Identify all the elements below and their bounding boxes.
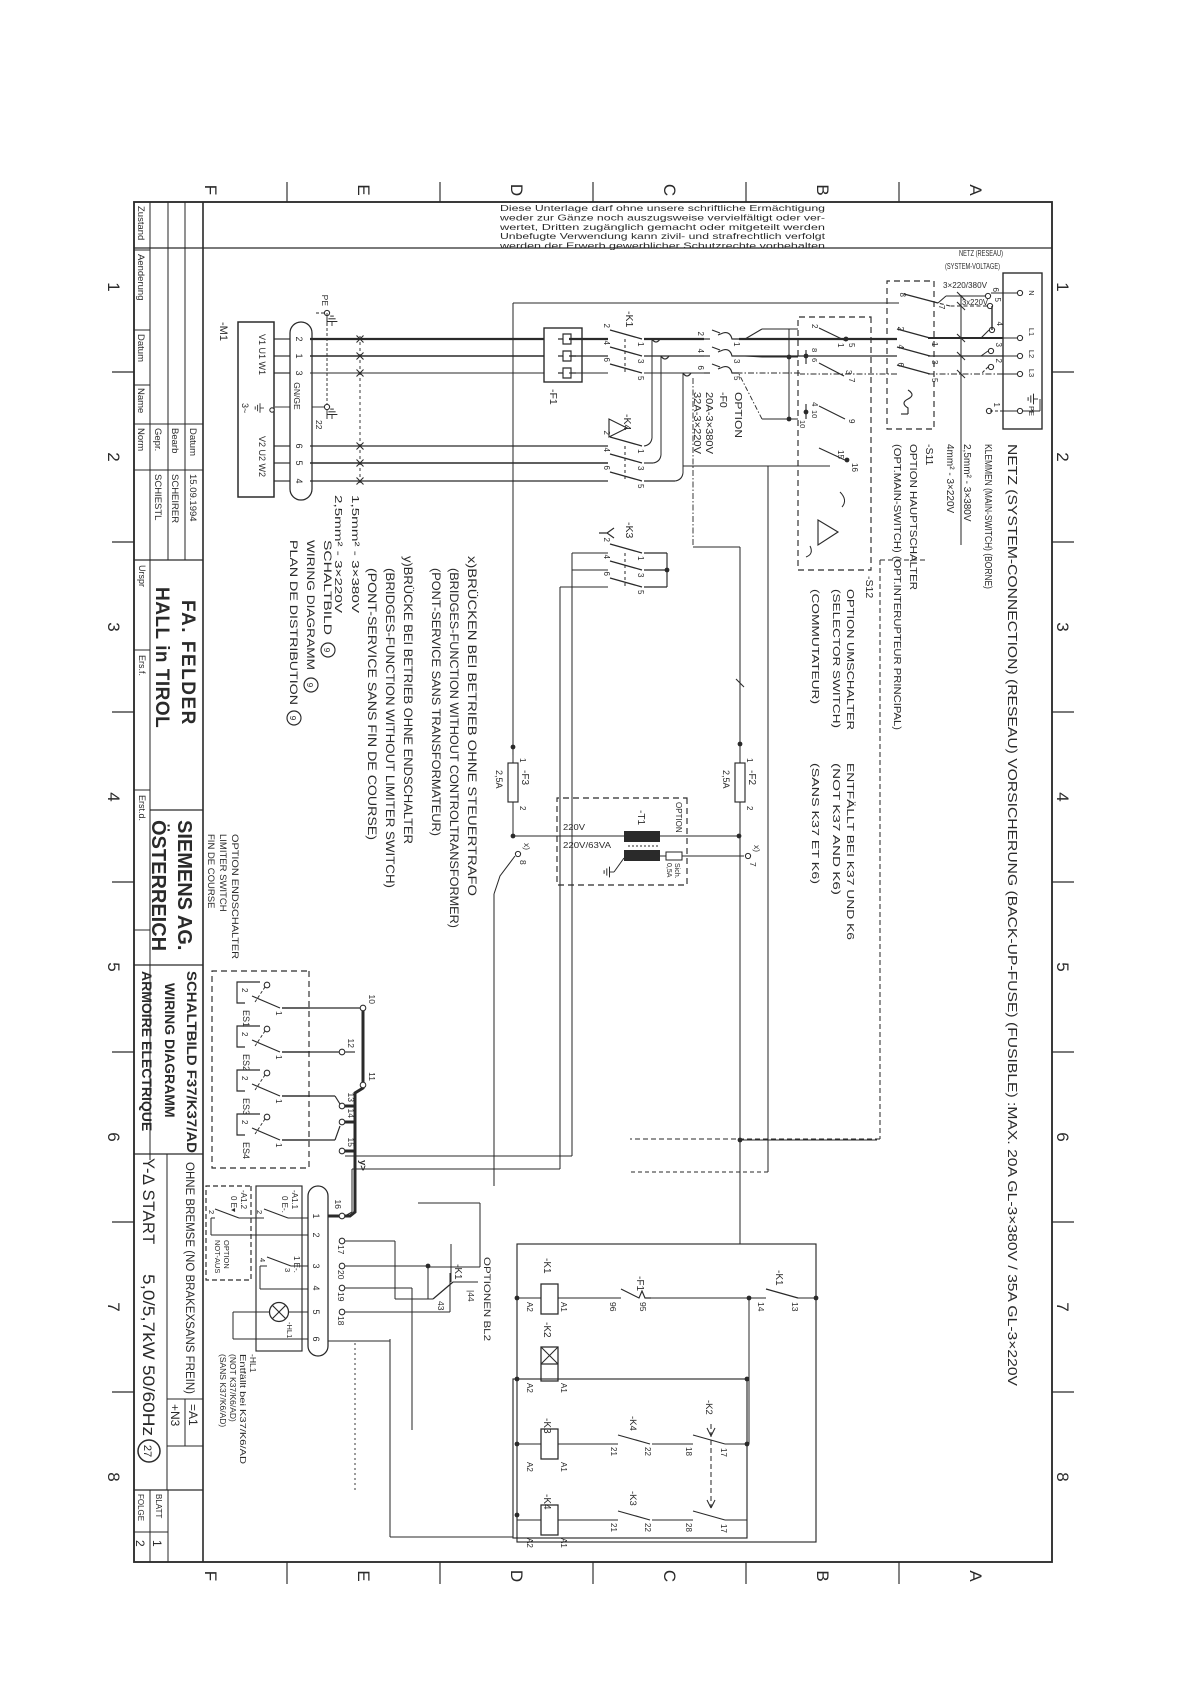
svg-text:werden der Erwerb gewerbliche: werden der Erwerb gewerblicher Schutzrec… <box>498 242 825 251</box>
svg-text:2: 2 <box>696 332 705 337</box>
svg-text:Aenderung: Aenderung <box>135 254 146 300</box>
svg-text:A1: A1 <box>559 1538 568 1548</box>
H11 signal lamp <box>288 1311 308 1313</box>
svg-text:HALL in TIROL: HALL in TIROL <box>151 587 172 728</box>
svg-text:17: 17 <box>719 1448 728 1457</box>
svg-text:0 E▾: 0 E▾ <box>229 1196 238 1212</box>
svg-text:(BRIDGES-FUNCTION WITHOUT LI: (BRIDGES-FUNCTION WITHOUT LIMITER SWITCH… <box>383 568 397 888</box>
=A1 +N3 cell <box>167 1398 203 1400</box>
K2 rung <box>558 1378 749 1380</box>
svg-text:2: 2 <box>602 324 611 329</box>
svg-text:1: 1 <box>745 758 754 763</box>
svg-text:9: 9 <box>847 419 856 424</box>
svg-text:6: 6 <box>991 288 1000 293</box>
star point to y-bridge wires <box>572 552 608 554</box>
svg-text:6: 6 <box>294 443 304 448</box>
svg-text:21: 21 <box>609 1447 618 1456</box>
svg-text:KLEMMEN (MAIN-SWITCH) (BORNE: KLEMMEN (MAIN-SWITCH) (BORNE) <box>982 444 993 589</box>
svg-text:3: 3 <box>994 343 1003 348</box>
svg-text:4: 4 <box>294 478 304 483</box>
svg-text:-F2: -F2 <box>746 770 757 785</box>
svg-text:x): x) <box>752 845 762 852</box>
svg-text:18: 18 <box>684 1447 693 1456</box>
svg-text:2: 2 <box>240 1032 249 1037</box>
svg-text:OPTION: OPTION <box>732 392 744 438</box>
svg-text:A2: A2 <box>525 1383 534 1393</box>
svg-text:5: 5 <box>993 298 1002 303</box>
svg-text:6: 6 <box>1053 1132 1072 1141</box>
svg-text:2: 2 <box>602 431 611 436</box>
svg-text:WIRING DIAGRAMM: WIRING DIAGRAMM <box>304 540 316 670</box>
svg-text:2: 2 <box>255 1210 264 1214</box>
svg-text:1: 1 <box>1053 282 1072 291</box>
svg-text:4: 4 <box>258 1258 267 1262</box>
svg-text:4: 4 <box>696 349 705 354</box>
svg-text:B: B <box>813 184 832 195</box>
svg-text:4: 4 <box>995 322 1004 327</box>
svg-text:-K3: -K3 <box>623 522 635 539</box>
svg-text:1: 1 <box>274 1143 283 1148</box>
svg-text:Name: Name <box>135 388 146 413</box>
svg-text:1: 1 <box>836 343 845 348</box>
svg-text:-HL1: -HL1 <box>285 1322 294 1338</box>
svg-text:3: 3 <box>1053 622 1072 631</box>
svg-text:10: 10 <box>810 410 819 418</box>
svg-text:wertet, Dritten zugänglich gem: wertet, Dritten zugänglich gemacht oder … <box>498 223 825 232</box>
svg-text:ES3: ES3 <box>241 1098 251 1115</box>
bridge terminals x)7 x)8 <box>745 853 750 858</box>
wire N to node 6 <box>991 292 1017 294</box>
svg-text:Gepr.: Gepr. <box>152 428 163 451</box>
limit switch ES3 <box>264 1070 270 1076</box>
svg-text:5: 5 <box>294 460 304 465</box>
svg-text:17: 17 <box>719 1524 728 1533</box>
ES dashed box <box>212 971 309 1168</box>
svg-text:ÖSTERREICH: ÖSTERREICH <box>147 820 170 951</box>
filing margin divider line <box>134 247 1052 249</box>
svg-text:2: 2 <box>240 988 249 993</box>
svg-text:A: A <box>966 184 985 196</box>
K4 rung <box>725 1519 747 1521</box>
svg-text:-K1: -K1 <box>623 311 635 328</box>
svg-text:-K4: -K4 <box>627 1416 638 1431</box>
svg-text:5: 5 <box>847 343 856 348</box>
svg-text:10: 10 <box>367 995 377 1005</box>
svg-text:220V: 220V <box>563 822 585 832</box>
S11 actuator squiggle <box>904 390 912 414</box>
svg-text:A: A <box>966 1570 985 1582</box>
svg-text:7: 7 <box>937 305 946 310</box>
svg-text:A2: A2 <box>525 1462 534 1472</box>
door contact 3-4 <box>291 1265 308 1267</box>
svg-text:Datum: Datum <box>187 428 198 456</box>
limit switch ES4 <box>264 1114 270 1120</box>
svg-text:Unbefugte Verwendung kann zivi: Unbefugte Verwendung kann zivil- und str… <box>500 232 826 241</box>
svg-text:9: 9 <box>305 683 314 688</box>
ground symbol at NETZ PE <box>1028 394 1038 405</box>
svg-text:2: 2 <box>518 806 527 811</box>
F2 rail feed corner from pole5 bridge <box>692 378 694 547</box>
svg-text:L1: L1 <box>1027 328 1036 336</box>
secondary ground <box>614 858 624 872</box>
svg-text:OPTION ENDSCHALTER: OPTION ENDSCHALTER <box>229 834 240 959</box>
svg-text:FA. FELDER: FA. FELDER <box>177 600 198 726</box>
A1 module box <box>256 1186 302 1351</box>
svg-text:20: 20 <box>336 1270 346 1280</box>
svg-text:18: 18 <box>336 1316 346 1326</box>
svg-text:4: 4 <box>104 792 123 801</box>
control circuit inner box <box>513 1379 747 1538</box>
svg-text:1: 1 <box>992 403 1001 408</box>
BLATT/FOLGE cells <box>134 1489 203 1491</box>
S12 selector mechanism symbol <box>818 520 838 545</box>
svg-text:(SANS K37 ET K6): (SANS K37 ET K6) <box>809 763 821 884</box>
svg-text:1: 1 <box>274 1011 283 1016</box>
svg-text:-K1: -K1 <box>541 1258 552 1274</box>
svg-text:13: 13 <box>346 1093 356 1103</box>
svg-text:2: 2 <box>810 324 819 329</box>
strap node5-node4 <box>991 306 993 330</box>
svg-text:6: 6 <box>311 1336 321 1341</box>
ES riser wires <box>282 1007 360 1009</box>
svg-text:6: 6 <box>602 572 611 577</box>
control circuit outer box <box>517 1244 816 1542</box>
svg-text:4: 4 <box>896 345 905 350</box>
control feed wire from pole5 tap <box>767 466 769 1172</box>
svg-text:PE: PE <box>320 295 330 307</box>
svg-text:(PONT-SERVICE SANS TRANSFORM: (PONT-SERVICE SANS TRANSFORMATEUR) <box>429 568 443 836</box>
T1 primary connections <box>513 835 624 837</box>
delta bridge taps with S-hooks <box>652 339 660 342</box>
svg-text:Diese Unterlage darf ohne unse: Diese Unterlage darf ohne unsere schrift… <box>500 204 826 213</box>
limit switch ES2 <box>264 1026 270 1032</box>
svg-text:2: 2 <box>294 336 304 341</box>
svg-text:L2: L2 <box>1027 350 1036 358</box>
svg-text:1: 1 <box>104 282 123 291</box>
svg-text:1: 1 <box>311 1213 321 1218</box>
svg-text:220V/63VA: 220V/63VA <box>563 840 611 850</box>
svg-text:8: 8 <box>810 348 819 352</box>
Urspr/Ersf/Erstd cells <box>149 560 151 1160</box>
svg-text:SCHALTBILD: SCHALTBILD <box>321 540 333 635</box>
svg-text:Urspr: Urspr <box>137 565 147 587</box>
svg-text:-S11: -S11 <box>923 444 935 466</box>
phase bus wires S11 to F0 <box>739 338 897 340</box>
svg-text:7: 7 <box>748 862 758 867</box>
control terminal strip 1-6 <box>308 1186 328 1356</box>
svg-text:-K1: -K1 <box>452 1264 463 1280</box>
svg-text:-M1: -M1 <box>217 322 229 341</box>
S12 contact pole2 <box>819 363 844 376</box>
svg-text:15: 15 <box>836 450 845 459</box>
svg-text:1: 1 <box>294 353 304 358</box>
svg-text:SCHEIRER: SCHEIRER <box>169 474 180 523</box>
svg-text:OPTION: OPTION <box>222 1240 231 1269</box>
title block top line <box>202 202 204 1562</box>
wires F0 to K1 contacts <box>644 338 704 340</box>
svg-text:A1: A1 <box>559 1462 568 1472</box>
svg-text:5: 5 <box>1053 962 1072 971</box>
svg-text:1: 1 <box>636 342 645 347</box>
svg-text:1: 1 <box>274 1099 283 1104</box>
heavy y-bus <box>328 1008 363 1216</box>
svg-text:-K4: -K4 <box>541 1494 552 1510</box>
svg-text:-A1.2: -A1.2 <box>239 1190 248 1210</box>
drawing frame border <box>134 202 1052 1562</box>
svg-text:6: 6 <box>810 358 819 362</box>
svg-text:3~: 3~ <box>240 403 250 413</box>
revision table <box>134 249 150 251</box>
svg-text:16: 16 <box>333 1200 343 1210</box>
svg-text:22: 22 <box>314 420 324 430</box>
svg-text:22: 22 <box>643 1523 652 1532</box>
svg-text:(SELECTOR SWITCH): (SELECTOR SWITCH) <box>830 589 842 728</box>
svg-text:Ers.f.: Ers.f. <box>137 655 147 676</box>
svg-text:OPTION: OPTION <box>674 802 683 833</box>
motor M1 <box>238 322 274 497</box>
svg-text:7: 7 <box>1053 1302 1072 1311</box>
svg-text:3: 3 <box>636 573 645 578</box>
control return wire from inner box to lamp return <box>390 1536 513 1538</box>
svg-text:8: 8 <box>1053 1472 1072 1481</box>
svg-text:3: 3 <box>311 1263 321 1268</box>
K4 to strip wires <box>310 445 608 447</box>
F2 fuse <box>735 763 745 802</box>
wires near OPTIONEN BL2 <box>345 1240 395 1242</box>
svg-text:Entfällt bei K37/K6/AD: Entfällt bei K37/K6/AD <box>238 1354 248 1464</box>
svg-text:15.09.1994: 15.09.1994 <box>187 474 198 522</box>
svg-text:-HL1: -HL1 <box>248 1354 258 1373</box>
svg-text:OPTIONEN BL2: OPTIONEN BL2 <box>482 1257 492 1341</box>
svg-text:y>: y> <box>357 1160 368 1171</box>
220V rail from S11 to F3 <box>512 303 514 755</box>
svg-text:2: 2 <box>994 359 1003 364</box>
F1 to motor strip wires <box>310 338 544 340</box>
svg-text:(BRIDGES-FUNCTION WITHOUT CO: (BRIDGES-FUNCTION WITHOUT CONTROLTRANSFO… <box>447 568 461 928</box>
svg-text:4: 4 <box>810 402 819 407</box>
cable grouping marks <box>359 336 361 486</box>
svg-text:1: 1 <box>636 449 645 454</box>
S11 feed wire to F3 tap <box>513 302 899 304</box>
svg-text:BLATT: BLATT <box>154 1494 163 1518</box>
svg-text:14: 14 <box>346 1109 356 1119</box>
K3 rung <box>725 1443 747 1445</box>
svg-text:11: 11 <box>367 1072 377 1081</box>
svg-text:-F1: -F1 <box>634 1276 645 1291</box>
svg-text:ENTFÄLLT BEI K37 UND K6: ENTFÄLLT BEI K37 UND K6 <box>844 763 856 940</box>
riser at X1140 <box>740 1139 877 1141</box>
svg-text:NOT-AUS: NOT-AUS <box>213 1240 222 1273</box>
svg-text:3×220/380V: 3×220/380V <box>943 281 988 290</box>
svg-text:2: 2 <box>240 1076 249 1081</box>
svg-text:2: 2 <box>240 1120 249 1125</box>
svg-text:-F0: -F0 <box>717 392 729 408</box>
svg-text:27: 27 <box>141 1445 153 1457</box>
svg-text:2: 2 <box>133 1540 147 1547</box>
svg-text:Sich.: Sich. <box>673 863 680 879</box>
svg-text:2: 2 <box>602 538 611 543</box>
NOT-AUS option dashed box <box>206 1186 251 1280</box>
F2 rail <box>739 547 741 763</box>
svg-text:-K1: -K1 <box>773 1270 784 1286</box>
svg-text:SCHIESTL: SCHIESTL <box>152 474 163 520</box>
svg-text:OPTION HAUPTSCHALTER: OPTION HAUPTSCHALTER <box>907 444 919 590</box>
svg-text:D: D <box>507 184 526 196</box>
svg-text:8: 8 <box>518 860 528 865</box>
svg-text:5: 5 <box>311 1309 321 1314</box>
svg-text:-S12: -S12 <box>863 576 875 598</box>
svg-text:5: 5 <box>104 962 123 971</box>
svg-text:5: 5 <box>636 590 645 595</box>
svg-text:0,5A: 0,5A <box>665 863 672 878</box>
L3 wire (dash-dot) through S11 contact 5-6 <box>928 373 1003 375</box>
svg-text:8: 8 <box>104 1472 123 1481</box>
svg-text:3: 3 <box>732 359 741 364</box>
svg-text:-K3: -K3 <box>541 1418 552 1434</box>
PE stub wire <box>989 410 1003 412</box>
svg-text:6: 6 <box>696 366 705 371</box>
svg-text:C: C <box>660 1570 679 1582</box>
svg-text:13: 13 <box>790 1302 800 1312</box>
svg-text:1,5mm² - 3×380V: 1,5mm² - 3×380V <box>349 495 360 613</box>
svg-text:16: 16 <box>850 463 859 472</box>
svg-text:6: 6 <box>104 1132 123 1141</box>
svg-text:y)BRÜCKE BEI BETRIEB OHNE: y)BRÜCKE BEI BETRIEB OHNE ENDSCHALTER <box>401 556 415 844</box>
svg-text:|44: |44 <box>466 1290 476 1302</box>
svg-text:95: 95 <box>638 1302 648 1312</box>
svg-text:-F3: -F3 <box>519 770 530 785</box>
svg-text:N: N <box>1027 290 1036 295</box>
T1 windings <box>624 831 660 842</box>
svg-text:1: 1 <box>518 758 527 763</box>
svg-text:(SYSTEM-VOLTAGE): (SYSTEM-VOLTAGE) <box>945 261 1000 271</box>
svg-text:GN/GE: GN/GE <box>292 382 302 410</box>
svg-text:1 E-.: 1 E-. <box>292 1256 301 1273</box>
K1 to F1 wires <box>569 338 608 340</box>
svg-text:15: 15 <box>346 1138 356 1148</box>
terminal 16 <box>339 1213 345 1219</box>
F1 overload relay <box>544 328 582 382</box>
svg-text:4: 4 <box>602 555 611 560</box>
svg-text:E: E <box>354 1570 373 1581</box>
svg-text:NETZ (SYSTEM-CONNECTION) (RE: NETZ (SYSTEM-CONNECTION) (RESEAU) VORSIC… <box>1005 444 1020 1386</box>
svg-text:1: 1 <box>732 342 741 347</box>
svg-text:4: 4 <box>602 341 611 346</box>
svg-text:x): x) <box>522 843 532 850</box>
svg-text:Datum: Datum <box>135 334 146 362</box>
svg-text:4mm² - 3×220V: 4mm² - 3×220V <box>944 444 955 514</box>
svg-text:Zustand: Zustand <box>135 206 146 240</box>
svg-text:4: 4 <box>602 448 611 453</box>
S12 strap 8-6 <box>805 350 807 364</box>
svg-text:OPTION UMSCHALTER: OPTION UMSCHALTER <box>844 589 856 731</box>
S12 exit stubs to F0 poles <box>762 328 798 330</box>
NETZ terminal box <box>1003 273 1042 429</box>
svg-text:(SANS K37/K6/AD): (SANS K37/K6/AD) <box>218 1354 228 1427</box>
svg-text:FIN DE COURSE: FIN DE COURSE <box>205 834 216 908</box>
svg-text:20A-3×380V: 20A-3×380V <box>703 392 714 454</box>
svg-text:2: 2 <box>104 452 123 461</box>
svg-text:ES4: ES4 <box>241 1142 251 1159</box>
svg-text:-T1: -T1 <box>635 810 646 825</box>
svg-text:9: 9 <box>288 716 297 721</box>
svg-text:(COMMUTATEUR): (COMMUTATEUR) <box>809 589 821 704</box>
secondary fuse Sich. 0,5A <box>660 855 666 857</box>
svg-text:96: 96 <box>608 1302 618 1312</box>
svg-text:7: 7 <box>104 1302 123 1311</box>
svg-text:19: 19 <box>336 1292 346 1302</box>
svg-text:2: 2 <box>745 806 754 811</box>
svg-text:weder zur Gänze noch auszugswe: weder zur Gänze noch auszugsweise vervie… <box>498 213 825 222</box>
svg-text:(OPT.MAIN-SWITCH) (OPT.INTERUP: (OPT.MAIN-SWITCH) (OPT.INTERUPTEUR PRINC… <box>891 444 903 730</box>
svg-text:Erst.d.: Erst.d. <box>137 795 147 821</box>
svg-text:10: 10 <box>798 420 807 428</box>
svg-text:17: 17 <box>336 1245 346 1255</box>
svg-text:ES2: ES2 <box>241 1054 251 1071</box>
svg-text:ARMOIRE ELECTRIQUE: ARMOIRE ELECTRIQUE <box>139 971 155 1131</box>
svg-text:V1 U1 W1: V1 U1 W1 <box>257 334 267 375</box>
svg-text:2: 2 <box>1053 452 1072 461</box>
svg-text:3: 3 <box>294 370 304 375</box>
svg-text:B: B <box>813 1570 832 1581</box>
svg-text:x)BRÜCKEN BEI BETRIEB OHNE: x)BRÜCKEN BEI BETRIEB OHNE STEUERTRAFO <box>465 556 479 896</box>
svg-text:+N3: +N3 <box>168 1404 182 1427</box>
svg-text:V2 U2 W2: V2 U2 W2 <box>257 436 267 477</box>
svg-text:A2: A2 <box>525 1302 534 1312</box>
svg-text:-K2: -K2 <box>541 1322 552 1338</box>
svg-text:5,0/5,7kW 50/60Hz: 5,0/5,7kW 50/60Hz <box>139 1274 157 1436</box>
svg-text:LIMITER SWITCH: LIMITER SWITCH <box>217 834 228 912</box>
svg-text:A1: A1 <box>559 1302 568 1312</box>
svg-text:(NOT K37 AND K6): (NOT K37 AND K6) <box>830 763 842 895</box>
svg-text:1: 1 <box>636 556 645 561</box>
svg-text:3: 3 <box>283 1268 292 1272</box>
svg-text:2,5A: 2,5A <box>494 770 504 789</box>
svg-text:12: 12 <box>346 1039 356 1049</box>
S12 dashed box <box>798 317 871 570</box>
A1.2 return to strip2 <box>211 1217 215 1219</box>
NETZ terminal circles <box>1003 292 1022 294</box>
svg-text:6: 6 <box>896 363 905 368</box>
svg-text:Y-Δ START: Y-Δ START <box>139 1158 157 1245</box>
S12/F2 tap junction on pole5 bridge <box>683 465 830 467</box>
S12 contact 15-16 <box>819 448 847 461</box>
svg-text:2,5mm² - 3×380V: 2,5mm² - 3×380V <box>961 444 972 522</box>
svg-text:1: 1 <box>150 1540 164 1547</box>
svg-text:6: 6 <box>602 466 611 471</box>
svg-text:ES1: ES1 <box>241 1010 251 1027</box>
svg-text:(PONT-SERVICE SANS FIN DE: (PONT-SERVICE SANS FIN DE COURSE) <box>365 568 379 840</box>
svg-text:21: 21 <box>609 1523 618 1532</box>
svg-text:NETZ (RESEAU): NETZ (RESEAU) <box>959 248 1003 258</box>
svg-text:2: 2 <box>311 1232 321 1237</box>
S11 dashed box <box>887 281 934 429</box>
svg-text:5: 5 <box>732 376 741 381</box>
svg-text:2,5A: 2,5A <box>721 770 731 789</box>
svg-text:F: F <box>201 1571 220 1581</box>
S11 contact 7-8 <box>946 295 958 297</box>
svg-text:-A1.1: -A1.1 <box>290 1190 299 1210</box>
limit switch ES1 <box>264 982 270 988</box>
svg-text:0 E-.: 0 E-. <box>280 1196 289 1213</box>
svg-text:A1: A1 <box>559 1383 568 1393</box>
svg-text:=A1: =A1 <box>186 1404 200 1426</box>
terminal circles on bus <box>360 1005 366 1011</box>
svg-text:2: 2 <box>896 327 905 332</box>
svg-text:-F1: -F1 <box>547 389 559 405</box>
svg-text:A2: A2 <box>525 1538 534 1548</box>
svg-text:8: 8 <box>898 293 907 298</box>
